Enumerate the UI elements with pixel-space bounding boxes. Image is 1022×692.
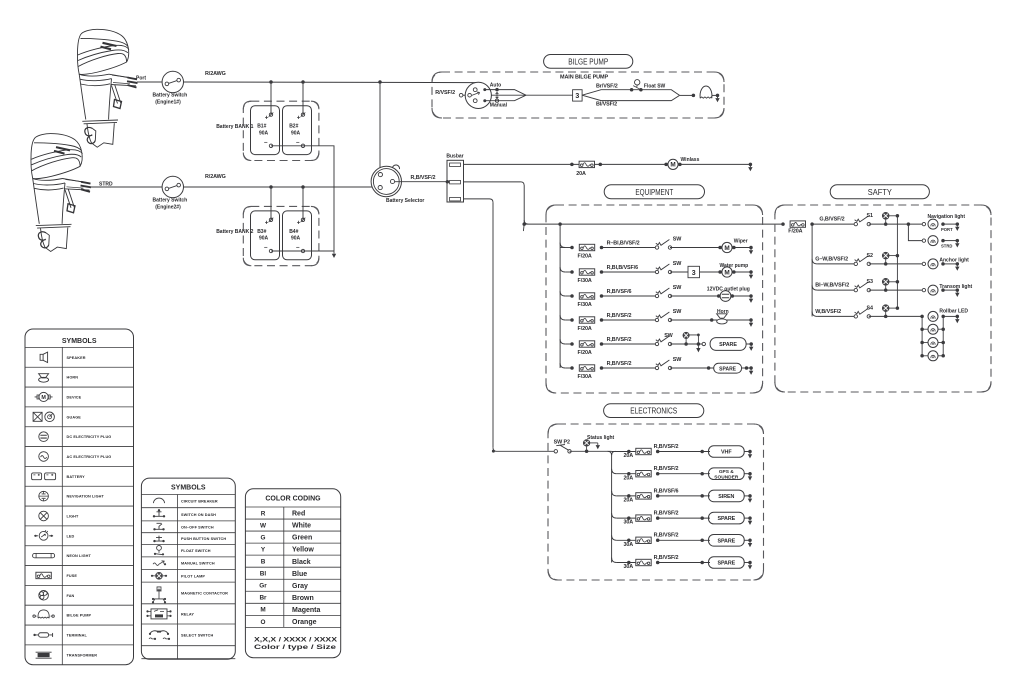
svg-text:SYMBOLS: SYMBOLS — [62, 338, 97, 345]
svg-text:GUAGE: GUAGE — [67, 415, 82, 419]
svg-text:90A: 90A — [291, 131, 301, 137]
svg-text:R,B/VSF/6: R,B/VSF/6 — [607, 289, 632, 295]
svg-text:TERMINAL: TERMINAL — [67, 633, 88, 637]
ground windlass — [749, 163, 753, 167]
equipment row 1 wire to wiper — [670, 247, 720, 249]
svg-text:30A: 30A — [624, 564, 634, 570]
svg-text:Color / type / Size: Color / type / Size — [254, 644, 337, 651]
svg-text:SW: SW — [673, 357, 682, 363]
svg-text:+: + — [297, 115, 301, 122]
branch to STRD lamp — [907, 222, 911, 226]
wire STRD engine to battery switch 2 — [88, 186, 162, 188]
svg-text:–: – — [264, 139, 268, 146]
svg-text:B: B — [261, 559, 266, 566]
svg-text:B3#: B3# — [257, 229, 266, 235]
legend icon ac plug — [39, 452, 49, 462]
svg-text:Battery Selector: Battery Selector — [386, 198, 424, 204]
legend icon fan — [39, 590, 49, 600]
ground spare row 6 — [749, 366, 753, 370]
svg-text:F/30A: F/30A — [578, 278, 592, 284]
svg-text:B2#: B2# — [289, 124, 298, 130]
svg-text:SYMBOLS: SYMBOLS — [171, 484, 206, 491]
svg-text:SPEAKER: SPEAKER — [67, 356, 86, 360]
svg-text:R: R — [261, 510, 266, 517]
legend icon magnetic contactor — [157, 587, 162, 599]
svg-text:+: + — [297, 220, 301, 227]
motor M Wiper — [718, 246, 722, 250]
svg-text:BILGE PUMP: BILGE PUMP — [67, 614, 92, 618]
svg-text:SOUNDER: SOUNDER — [714, 475, 739, 481]
wire battery bank 2 negative bus — [271, 250, 334, 252]
svg-text:R,B/VSF/2: R,B/VSF/2 — [654, 555, 679, 561]
ground electronics row 3 — [748, 494, 752, 498]
ground electronics row 2 — [748, 472, 752, 476]
ground row 5 tap — [696, 348, 700, 352]
svg-text:F/20A: F/20A — [578, 350, 592, 356]
outboard engine Port (line art) — [77, 29, 137, 147]
ground electronics row 5 — [748, 539, 752, 543]
svg-text:SW: SW — [673, 261, 682, 267]
electronics load box SPARE — [709, 557, 745, 569]
svg-text:SPARE: SPARE — [717, 516, 735, 522]
safety switch S3 — [854, 288, 857, 291]
ground navigation STRD — [956, 239, 960, 243]
legend icon circuit breaker — [154, 498, 165, 503]
equipment row 1 switch SW — [655, 246, 658, 249]
svg-text:M: M — [41, 395, 46, 401]
wire Port feed down to battery selector — [379, 82, 381, 169]
svg-text:R,B/VSF/2: R,B/VSF/2 — [654, 444, 679, 450]
battery switch 2 (Engine2) — [162, 176, 183, 197]
svg-text:ON–OFF SWITCH: ON–OFF SWITCH — [181, 525, 214, 529]
equipment row 3 branch/fuse F/30A — [560, 291, 565, 296]
ground anchor light — [956, 262, 960, 266]
safety pilot lamp row 2 — [882, 252, 889, 259]
electronics row 1 branch/fuse 20A — [612, 451, 636, 453]
svg-text:90A: 90A — [291, 236, 301, 242]
legend icon relay — [151, 609, 167, 619]
svg-text:90A: 90A — [259, 236, 269, 242]
ground 12VDC outlet — [732, 295, 751, 297]
svg-text:Status light: Status light — [587, 435, 615, 441]
svg-text:PUSH BUTTON SWITCH: PUSH BUTTON SWITCH — [181, 537, 226, 541]
safety row 1 branch + label — [812, 223, 856, 225]
svg-text:SPARE: SPARE — [717, 538, 735, 544]
ground battery banks — [333, 251, 335, 254]
svg-text:Blue: Blue — [292, 571, 307, 578]
svg-text:Rollbar LED: Rollbar LED — [939, 308, 968, 314]
svg-text:NEON LIGHT: NEON LIGHT — [67, 554, 92, 558]
dashed box EQUIPMENT — [546, 205, 763, 393]
svg-text:S4: S4 — [867, 305, 873, 311]
svg-text:F/20A: F/20A — [788, 229, 802, 235]
svg-text:Manual: Manual — [490, 103, 508, 109]
svg-text:DEVICE: DEVICE — [67, 395, 82, 399]
wire busbar bottom to electronics feed — [464, 198, 490, 200]
svg-text:O: O — [261, 619, 266, 626]
wire bundle selector to junction box 3 — [495, 88, 499, 92]
ground electronics row 4 — [748, 516, 752, 520]
svg-text:30A: 30A — [624, 542, 634, 548]
svg-text:+: + — [265, 220, 269, 227]
rollbar LED ladder — [921, 316, 923, 355]
safety row 3 branch + label — [812, 285, 817, 290]
legend icon dc plug — [39, 432, 49, 442]
svg-text:90A: 90A — [259, 131, 269, 137]
svg-text:(Engine1#): (Engine1#) — [155, 99, 181, 105]
svg-text:30A: 30A — [624, 520, 634, 526]
svg-text:Bl–W,B/VSF/2: Bl–W,B/VSF/2 — [815, 283, 849, 289]
equipment row 4 switch SW — [655, 318, 658, 321]
electronics row 3 branch/fuse 20A — [612, 491, 617, 496]
equipment row 2 wire to box 3 — [670, 271, 688, 273]
svg-text:NEVIGATION LIGHT: NEVIGATION LIGHT — [67, 495, 105, 499]
legend icon battery — [32, 473, 42, 480]
svg-text:SW: SW — [673, 309, 682, 315]
svg-text:R,B/VSF/2: R,B/VSF/2 — [654, 533, 679, 539]
safety pilot lamp row 3 — [882, 279, 889, 286]
svg-text:CIRCUIT BREAKER: CIRCUIT BREAKER — [181, 500, 218, 504]
legend icon switch on dash — [154, 512, 164, 517]
title box BILGE PUMP — [544, 55, 633, 69]
equipment row 6 wire to spare — [670, 367, 714, 369]
legend icon navigation light — [39, 491, 49, 501]
svg-text:SW: SW — [664, 333, 673, 339]
svg-text:Red: Red — [292, 511, 305, 518]
svg-text:F/20A: F/20A — [578, 326, 592, 332]
svg-text:B4#: B4# — [289, 229, 298, 235]
legend table COLOR CODING — [245, 489, 340, 658]
legend icon transformer — [36, 652, 52, 658]
legend icon pilot lamp — [152, 575, 166, 577]
svg-text:Gr: Gr — [259, 583, 267, 590]
equipment row 2 branch/fuse F/30A — [560, 267, 565, 272]
svg-text:SAFTY: SAFTY — [868, 187, 892, 197]
svg-text:R,B/VSF/6: R,B/VSF/6 — [654, 488, 679, 494]
svg-text:G,B/VSF/2: G,B/VSF/2 — [819, 217, 844, 223]
svg-text:Horn: Horn — [717, 309, 729, 315]
battery selector (rotary switch) — [393, 165, 400, 169]
svg-text:S1: S1 — [867, 213, 873, 219]
horn symbol — [717, 314, 728, 318]
dashed box MAIN BILGE PUMP — [432, 72, 724, 118]
svg-text:Gray: Gray — [292, 583, 308, 590]
ground rollbar LED — [956, 315, 960, 319]
outboard engine STRD (line art) — [31, 134, 91, 252]
legend icon push button switch — [155, 536, 164, 542]
svg-text:20A: 20A — [624, 475, 634, 481]
svg-text:STRD: STRD — [99, 181, 113, 187]
wire battery bank 1 negative bus — [271, 146, 334, 251]
svg-text:G: G — [261, 535, 266, 542]
legend table SYMBOLS (switches) — [141, 478, 235, 659]
svg-text:ELECTRONICS: ELECTRONICS — [630, 406, 677, 416]
svg-text:12VDC outlet plug: 12VDC outlet plug — [707, 286, 750, 292]
legend icon manual switch — [153, 561, 164, 566]
svg-text:Bl: Bl — [260, 571, 267, 578]
svg-text:Battery BANK 2: Battery BANK 2 — [216, 229, 253, 235]
ground wiper — [734, 247, 751, 249]
svg-text:R/2AWG: R/2AWG — [205, 174, 226, 180]
legend icon float switch — [157, 546, 162, 551]
svg-text:SPARE: SPARE — [719, 342, 737, 348]
svg-text:PILOT LAMP: PILOT LAMP — [181, 574, 205, 578]
svg-text:COLOR CODING: COLOR CODING — [265, 496, 321, 503]
pilot lamp on row 5 — [683, 332, 689, 338]
svg-text:B1#: B1# — [257, 124, 266, 130]
junction dots on STRD wire — [269, 185, 273, 189]
safety pilot lamp row 4 — [882, 305, 889, 312]
equipment row 5 branch/fuse F/20A — [560, 339, 565, 344]
svg-text:–: – — [264, 244, 268, 251]
battery bank 1 (B1 B2) — [243, 101, 319, 160]
electronics row 2 branch/fuse 20A — [612, 469, 617, 474]
ground bilge pump — [716, 94, 720, 98]
title box SAFTY — [830, 185, 929, 199]
junction box 3 (bilge) — [573, 90, 583, 101]
wire busbar middle to equipment/safety feed — [464, 181, 521, 183]
svg-text:R,B/VSF/2: R,B/VSF/2 — [654, 511, 679, 517]
electronics load box GPS &/SOUNDER — [709, 468, 745, 480]
svg-text:–: – — [296, 139, 300, 146]
legend icon fuse — [36, 572, 51, 578]
svg-text:FLOAT SWITCH: FLOAT SWITCH — [181, 549, 211, 553]
svg-text:VHF: VHF — [721, 450, 732, 456]
svg-text:SW: SW — [673, 237, 682, 243]
ground horn — [749, 318, 753, 322]
svg-text:GPS &: GPS & — [719, 469, 734, 475]
svg-text:Auto: Auto — [490, 83, 501, 89]
svg-text:Winlass: Winlass — [681, 157, 700, 163]
motor M Winlass — [664, 163, 668, 167]
svg-text:R,B/VSF/2: R,B/VSF/2 — [607, 361, 632, 367]
svg-text:W,B/VSF/2: W,B/VSF/2 — [815, 309, 841, 315]
svg-text:BATTERY: BATTERY — [67, 475, 86, 479]
electronics load box VHF — [709, 446, 745, 458]
equipment bus junction — [558, 222, 562, 226]
transom light lamp — [922, 288, 925, 291]
title box EQUIPMENT — [604, 185, 704, 199]
svg-text:AC ELECTRICITY PLUG: AC ELECTRICITY PLUG — [67, 455, 112, 459]
navigation light PORT lamp — [922, 222, 925, 225]
svg-text:R–Bl,B/VSF/2: R–Bl,B/VSF/2 — [607, 240, 640, 246]
legend icon speaker — [40, 352, 48, 362]
svg-text:3: 3 — [692, 270, 696, 277]
svg-text:EQUIPMENT: EQUIPMENT — [635, 187, 674, 197]
equipment row 6 switch SW — [655, 366, 658, 369]
svg-text:R,B/VSF/2: R,B/VSF/2 — [607, 337, 632, 343]
svg-text:SWITCH ON DASH: SWITCH ON DASH — [181, 513, 216, 517]
svg-text:G–W,B/VSF/2: G–W,B/VSF/2 — [815, 257, 848, 263]
svg-text:R/VSF/2: R/VSF/2 — [435, 90, 455, 96]
safety switch S2 — [854, 262, 857, 265]
electronics row 5 branch/fuse 30A — [612, 535, 617, 540]
svg-text:R,B/VSF/2: R,B/VSF/2 — [411, 175, 436, 181]
battery switch 1 (Engine1) — [162, 71, 183, 92]
dashed box ELECTRONICS — [548, 424, 764, 580]
spare box row 5 — [702, 342, 705, 345]
bilge auto/manual selector switch — [459, 93, 463, 97]
legend table SYMBOLS (left) — [25, 329, 134, 665]
electronics row 4 branch/fuse 30A — [612, 513, 617, 518]
svg-text:RELAY: RELAY — [181, 612, 194, 616]
svg-text:Busbar: Busbar — [446, 153, 463, 159]
equipment row 5 wire to spare — [670, 343, 704, 345]
svg-text:F/20A: F/20A — [578, 253, 592, 259]
wire feed to EQUIPMENT and SAFTY — [524, 223, 783, 225]
ground water pump — [734, 271, 751, 273]
svg-text:SPARE: SPARE — [717, 561, 735, 567]
svg-text:Green: Green — [292, 535, 312, 542]
svg-text:R,Bl,B/VSF/6: R,Bl,B/VSF/6 — [607, 265, 639, 271]
svg-text:White: White — [292, 523, 311, 530]
equipment row 3 switch SW — [655, 294, 658, 297]
electronics row 6 branch/fuse 30A — [612, 558, 617, 563]
legend icon on-off switch — [155, 523, 164, 529]
equipment vertical bus — [559, 224, 561, 368]
svg-text:Brown: Brown — [292, 595, 314, 602]
electronics vertical bus — [608, 451, 616, 455]
svg-text:Battery BANK 1: Battery BANK 1 — [216, 124, 253, 130]
svg-text:–: – — [296, 244, 300, 251]
safety row 4 branch + label — [812, 311, 817, 316]
battery bank 2 (B3 B4) — [243, 206, 319, 265]
anchor light lamp — [922, 262, 925, 265]
svg-text:Bl/VSF/2: Bl/VSF/2 — [596, 101, 617, 107]
bilge pump symbol — [692, 94, 696, 98]
12VDC outlet plug symbol — [717, 294, 721, 298]
spare box row 6 — [714, 363, 742, 373]
svg-text:M: M — [260, 607, 265, 614]
electronics load box SPARE — [709, 535, 745, 547]
wire Port engine to battery switch 1 — [137, 81, 162, 83]
equipment row 1 branch/fuse F/20A — [560, 243, 565, 248]
ground electronics row 6 — [748, 561, 752, 565]
svg-text:DC ELECTRICITY PLUG: DC ELECTRICITY PLUG — [67, 435, 112, 439]
svg-text:MANUAL SWITCH: MANUAL SWITCH — [181, 562, 215, 566]
ground navigation PORT — [956, 222, 960, 226]
svg-text:Port: Port — [136, 76, 146, 82]
svg-text:Br/VSF/2: Br/VSF/2 — [596, 84, 618, 90]
equipment row 4 wire to horn — [670, 319, 751, 321]
svg-text:Br: Br — [259, 595, 267, 602]
svg-text:HORN: HORN — [67, 376, 79, 380]
legend icon horn — [39, 374, 49, 378]
svg-text:X,X,X / XXXX / XXXX: X,X,X / XXXX / XXXX — [254, 636, 338, 643]
ground spare row 5 — [749, 342, 753, 346]
wires battery bank 2 positive leads — [270, 187, 272, 220]
svg-text:Orange: Orange — [292, 619, 317, 626]
junction box 3 (water pump) — [688, 266, 700, 277]
junction dots on Port wire — [269, 80, 273, 84]
wire busbar to windlass circuit — [464, 163, 751, 165]
electronics load box SPARE — [709, 512, 745, 524]
svg-text:MAIN BILGE PUMP: MAIN BILGE PUMP — [560, 74, 608, 80]
svg-text:20A: 20A — [576, 171, 586, 177]
svg-text:FUSE: FUSE — [67, 574, 78, 578]
svg-text:Yellow: Yellow — [292, 547, 314, 554]
svg-text:R,B/VSF/2: R,B/VSF/2 — [654, 466, 679, 472]
svg-text:Float SW: Float SW — [644, 84, 666, 90]
safety pilot lamp bus — [896, 216, 898, 308]
svg-text:M: M — [724, 269, 729, 276]
motor M Water pump — [718, 270, 722, 274]
legend icon device (M) — [35, 396, 53, 398]
svg-text:3: 3 — [575, 93, 579, 100]
svg-text:PORT: PORT — [941, 227, 953, 232]
fuse F/20A safety — [781, 222, 785, 226]
svg-text:F/30A: F/30A — [578, 302, 592, 308]
svg-text:Y: Y — [261, 547, 266, 554]
svg-text:STRD: STRD — [941, 243, 952, 248]
fuse 20A windlass — [570, 163, 574, 167]
legend icon bilge pump — [38, 610, 49, 618]
equipment row 6 branch/fuse F/30A — [560, 363, 565, 368]
svg-text:R,B/VSF/2: R,B/VSF/2 — [607, 313, 632, 319]
svg-text:F/30A: F/30A — [578, 374, 592, 380]
svg-text:Wiper: Wiper — [734, 238, 748, 244]
svg-text:(Engine2#): (Engine2#) — [155, 204, 181, 210]
equipment row 4 branch/fuse F/20A — [560, 315, 565, 320]
dashed box SAFTY — [775, 205, 991, 392]
svg-text:S2: S2 — [867, 253, 873, 259]
float switch Float SW — [635, 80, 640, 85]
safety row 2 branch + label — [812, 259, 817, 264]
svg-text:M: M — [724, 245, 729, 252]
svg-text:SPARE: SPARE — [719, 366, 737, 372]
svg-text:Water pump: Water pump — [720, 263, 749, 269]
svg-text:FAN: FAN — [67, 594, 75, 598]
safety switch S4 — [854, 315, 857, 318]
safety pilot lamp row 1 — [882, 213, 889, 220]
svg-text:LIGHT: LIGHT — [67, 514, 79, 518]
svg-text:MAGNETIC CONTACTOR: MAGNETIC CONTACTOR — [181, 591, 228, 595]
svg-text:SELECT SWITCH: SELECT SWITCH — [181, 633, 213, 637]
legend icon guage — [33, 412, 42, 421]
svg-text:Black: Black — [292, 559, 311, 566]
svg-text:+: + — [265, 115, 269, 122]
status light lamp — [583, 440, 589, 446]
legend icon led — [34, 535, 53, 537]
legend icon terminal — [35, 634, 53, 636]
svg-text:20A: 20A — [624, 498, 634, 504]
equipment row 3 wire to 12VDC outlet — [670, 295, 719, 297]
legend icon light — [39, 511, 49, 521]
svg-text:LED: LED — [67, 534, 75, 538]
legend icon neon light — [33, 553, 55, 557]
svg-text:BILGE PUMP: BILGE PUMP — [568, 56, 608, 66]
safety switch S1 — [854, 222, 857, 225]
safety vertical bus — [811, 224, 813, 316]
svg-text:TRANSFORMER: TRANSFORMER — [67, 653, 98, 657]
svg-text:Magenta: Magenta — [292, 607, 321, 614]
svg-text:R/2AWG: R/2AWG — [205, 71, 226, 77]
ground electronics row 1 — [748, 450, 752, 454]
equipment row 2 switch SW — [655, 270, 658, 273]
svg-text:W: W — [260, 522, 267, 529]
svg-text:20A: 20A — [624, 453, 634, 459]
svg-text:S3: S3 — [867, 279, 873, 285]
svg-text:M: M — [670, 162, 675, 169]
svg-text:SW: SW — [673, 285, 682, 291]
navigation light STRD lamp — [922, 239, 925, 242]
svg-text:SIREN: SIREN — [718, 494, 734, 500]
ground transom light — [956, 288, 960, 292]
electronics load box SIREN — [709, 490, 745, 502]
svg-text:Battery Switch: Battery Switch — [153, 198, 188, 204]
wire bundle box 3 to bilge pump — [582, 90, 680, 96]
title box ELECTRONICS — [604, 404, 704, 418]
